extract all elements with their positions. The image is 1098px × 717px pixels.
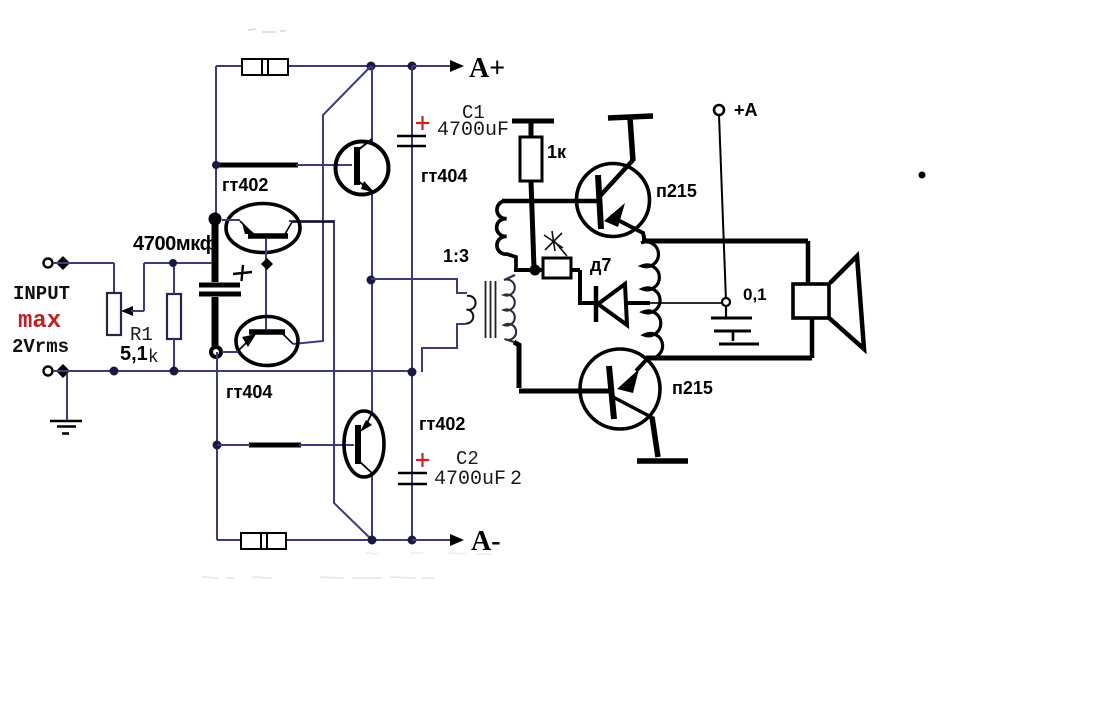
node tap 0,1 <box>722 298 730 306</box>
transistor VT4 gt402 driver <box>344 411 384 477</box>
svg-text:гт404: гт404 <box>421 166 467 186</box>
capacitor C1 <box>397 116 429 146</box>
resistor R4 box <box>539 258 596 303</box>
wire diagonal bootstrap left (line A) <box>293 66 371 344</box>
node top-2 <box>408 62 417 71</box>
svg-text:4700uF: 4700uF <box>434 468 506 491</box>
svg-text:д7: д7 <box>590 255 611 275</box>
stray dot <box>919 172 926 179</box>
wire bottom A- rail <box>217 539 449 541</box>
wire collector link line B <box>289 221 372 540</box>
svg-text:гт402: гт402 <box>419 414 465 434</box>
svg-text:4700uF: 4700uF <box>437 119 509 142</box>
svg-text:A+: A+ <box>469 53 505 84</box>
wire center vertical x372 <box>371 66 373 540</box>
fuse F1 top <box>242 59 288 75</box>
svg-text:гт402: гт402 <box>222 175 268 195</box>
fuse F2 bottom <box>241 533 286 549</box>
svg-text:C2: C2 <box>456 448 479 470</box>
resistor R2 <box>167 263 181 371</box>
wire top A+ rail <box>216 65 449 67</box>
svg-text:1:3: 1:3 <box>443 246 469 266</box>
node top-1 <box>367 62 376 71</box>
wire base bottom p215 <box>519 389 609 394</box>
transformer T1 secondary lower winding <box>504 275 516 342</box>
svg-text:п215: п215 <box>672 378 713 398</box>
svg-text:п215: п215 <box>656 181 697 201</box>
svg-text:INPUT: INPUT <box>13 283 70 305</box>
wire base top p215 <box>502 199 598 204</box>
capacitor 0,1 <box>711 306 759 344</box>
transistor VT2 gt404 small bottom <box>222 317 298 366</box>
asterisk mark <box>544 231 567 256</box>
node diamond bases <box>261 258 273 270</box>
svg-text:A-: A- <box>471 526 501 557</box>
node primary bottom <box>408 368 417 377</box>
transformer T1 core <box>486 281 496 338</box>
wire left vertical from A+ rail down <box>215 66 217 221</box>
faint smudges bottom row <box>202 577 434 578</box>
wire input top <box>53 263 114 294</box>
input terminal top <box>44 256 71 270</box>
transistor VT5 p215 top <box>577 116 654 242</box>
svg-text:+A: +A <box>734 100 758 120</box>
transistor VT3 gt404 top big <box>336 139 389 195</box>
svg-text:4700мкф: 4700мкф <box>133 233 217 255</box>
capacitor C2 <box>398 453 429 484</box>
wire transformer primary top <box>371 279 467 293</box>
node primary top <box>367 276 376 285</box>
node main left dot <box>209 213 222 226</box>
ground symbol <box>50 373 82 434</box>
svg-text:max: max <box>18 308 61 335</box>
wire thick base link bottom <box>217 443 354 448</box>
wire diode to tap <box>650 302 723 304</box>
wire bases link vertical <box>265 239 267 329</box>
svg-text:1к: 1к <box>547 142 567 162</box>
svg-text:2: 2 <box>510 468 522 491</box>
transistor VT1 gt402 small top <box>222 204 334 253</box>
faint smudges near A- <box>366 553 492 554</box>
speaker LS1 <box>793 241 864 358</box>
node bottom-1 <box>368 536 377 545</box>
diode D1 <box>596 284 650 325</box>
capacitor 4700mkf electrolytic <box>199 219 252 346</box>
node donut cap bottom <box>211 347 221 357</box>
potentiometer R1 <box>107 263 212 335</box>
choke output winding <box>641 242 663 358</box>
terminal bar bottom collector <box>637 458 688 464</box>
transistor VT6 p215 bottom <box>580 349 660 457</box>
terminal +A <box>714 105 726 301</box>
node driver base <box>213 441 222 450</box>
transformer T1 secondary upper winding <box>497 201 533 270</box>
arrow A+ <box>412 60 464 72</box>
wire ground bus y371 <box>53 367 412 376</box>
node bias tap <box>530 265 541 276</box>
resistor R3 1k <box>512 121 554 268</box>
wire secondary lower to base <box>514 342 519 388</box>
svg-text:0,1: 0,1 <box>743 285 767 304</box>
svg-text:гт404: гт404 <box>226 382 272 402</box>
transformer T1 primary winding <box>466 296 476 324</box>
wire thick base link top <box>212 161 352 169</box>
wire right vertical x412 C1/C2 chain <box>411 66 413 540</box>
wire left lower vertical <box>216 352 218 540</box>
faint smudge top <box>248 29 286 32</box>
arrow A- <box>412 534 464 546</box>
input terminal bottom <box>44 364 71 378</box>
node R2 top <box>169 259 177 267</box>
wire output rail bottom <box>646 356 812 361</box>
svg-text:2Vrms: 2Vrms <box>12 336 69 358</box>
node bottom-2 <box>408 536 417 545</box>
wire transformer primary bottom <box>422 324 466 372</box>
wire output rail top <box>642 239 808 244</box>
